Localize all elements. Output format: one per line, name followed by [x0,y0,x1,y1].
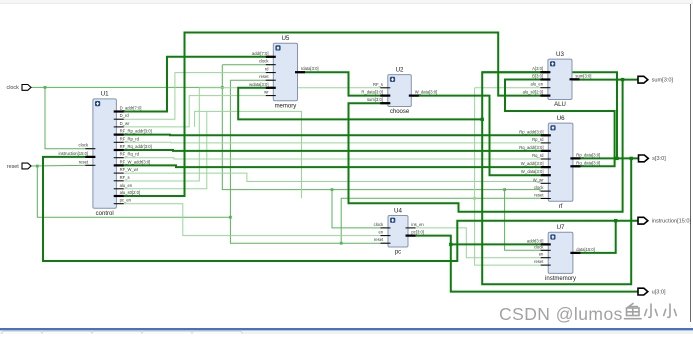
svg-text:D_wr: D_wr [120,121,130,126]
svg-text:U7: U7 [557,224,565,231]
svg-text:reset: reset [79,159,89,164]
svg-text:R_data[3:0]: R_data[3:0] [361,90,383,95]
svg-text:B[3:0]: B[3:0] [532,74,543,79]
svg-text:rdata[3:0]: rdata[3:0] [301,66,319,71]
svg-text:choose: choose [390,109,410,115]
svg-text:sum[3:0]: sum[3:0] [367,97,383,102]
svg-text:en: en [539,252,544,257]
svg-text:s[3:0]: s[3:0] [652,156,666,162]
svg-text:A[3:0]: A[3:0] [532,66,543,71]
svg-text:sum[3:0]: sum[3:0] [575,73,591,78]
svg-text:clock: clock [7,85,20,91]
svg-text:RF_W_wr: RF_W_wr [120,167,139,172]
svg-text:data[15:0]: data[15:0] [576,247,595,252]
svg-text:reset: reset [7,164,19,170]
svg-text:RF_Rq_rd: RF_Rq_rd [120,152,140,157]
svg-text:clock: clock [259,59,269,64]
svg-text:W_addr[3:0]: W_addr[3:0] [521,161,544,166]
svg-text:U6: U6 [557,115,565,122]
svg-text:memory: memory [275,103,297,109]
svg-text:Rp_rd: Rp_rd [532,137,544,142]
svg-text:U1: U1 [101,91,109,98]
svg-text:reset: reset [374,237,384,242]
svg-text:RF_s: RF_s [120,175,130,180]
svg-text:RF_Rq_addr[3:0]: RF_Rq_addr[3:0] [120,144,152,149]
svg-text:reset: reset [259,74,269,79]
svg-text:alu_s0[2:0]: alu_s0[2:0] [523,90,544,95]
svg-text:clock: clock [374,222,384,227]
svg-text:pc_en: pc_en [120,198,132,203]
svg-text:u[3:0]: u[3:0] [652,289,666,295]
svg-text:ALU: ALU [554,102,566,108]
svg-text:Rq_addr[3:0]: Rq_addr[3:0] [519,145,543,150]
svg-text:addr[7:0]: addr[7:0] [252,51,269,56]
svg-text:alu_s0[2:0]: alu_s0[2:0] [120,190,141,195]
svg-text:RF_Rp_addr[3:0]: RF_Rp_addr[3:0] [120,129,152,134]
svg-text:wdata[3:0]: wdata[3:0] [249,82,268,87]
svg-text:W_data[3:0]: W_data[3:0] [415,90,438,95]
svg-text:clock: clock [79,143,89,148]
svg-text:alu_en: alu_en [531,82,544,87]
svg-text:W_wr: W_wr [533,177,544,182]
svg-text:Rp_data[3:0]: Rp_data[3:0] [576,152,600,157]
svg-text:U5: U5 [281,35,289,42]
svg-text:instmemory: instmemory [545,276,576,282]
svg-text:pc: pc [395,250,401,256]
svg-text:addr[3:0]: addr[3:0] [527,238,544,243]
svg-text:U2: U2 [396,66,404,73]
svg-text:control: control [96,211,114,217]
svg-text:pc[3:0]: pc[3:0] [411,230,424,235]
svg-text:ins_en: ins_en [411,222,424,227]
svg-text:U3: U3 [556,51,564,58]
svg-text:W_data[3:0]: W_data[3:0] [521,169,544,174]
svg-text:Rq_rd: Rq_rd [532,153,544,158]
svg-text:alu_en: alu_en [120,183,133,188]
svg-text:clock: clock [534,244,544,249]
svg-text:instruction[15:0]: instruction[15:0] [652,219,692,225]
svg-text:CSDN @lumos: CSDN @lumos [499,304,623,324]
svg-text:wr: wr [264,90,269,95]
svg-text:RF_W_addr[3:0]: RF_W_addr[3:0] [120,159,151,164]
svg-text:D_rd: D_rd [120,113,130,118]
svg-text:reset: reset [534,193,544,198]
svg-text:U4: U4 [394,207,402,214]
svg-text:Rq_data[3:0]: Rq_data[3:0] [576,160,600,165]
svg-text:instruction[15:0]: instruction[15:0] [59,151,89,156]
svg-text:sum[3:0]: sum[3:0] [652,78,674,84]
svg-text:en: en [379,230,384,235]
svg-text:Rp_addr[3:0]: Rp_addr[3:0] [519,129,543,134]
svg-text:clock: clock [534,185,544,190]
svg-text:rf: rf [559,204,563,210]
svg-text:RF_Rp_rd: RF_Rp_rd [120,136,140,141]
svg-text:D_addr[7:0]: D_addr[7:0] [120,106,142,111]
svg-text:RF_s: RF_s [373,82,383,87]
svg-text:reset: reset [534,259,544,264]
